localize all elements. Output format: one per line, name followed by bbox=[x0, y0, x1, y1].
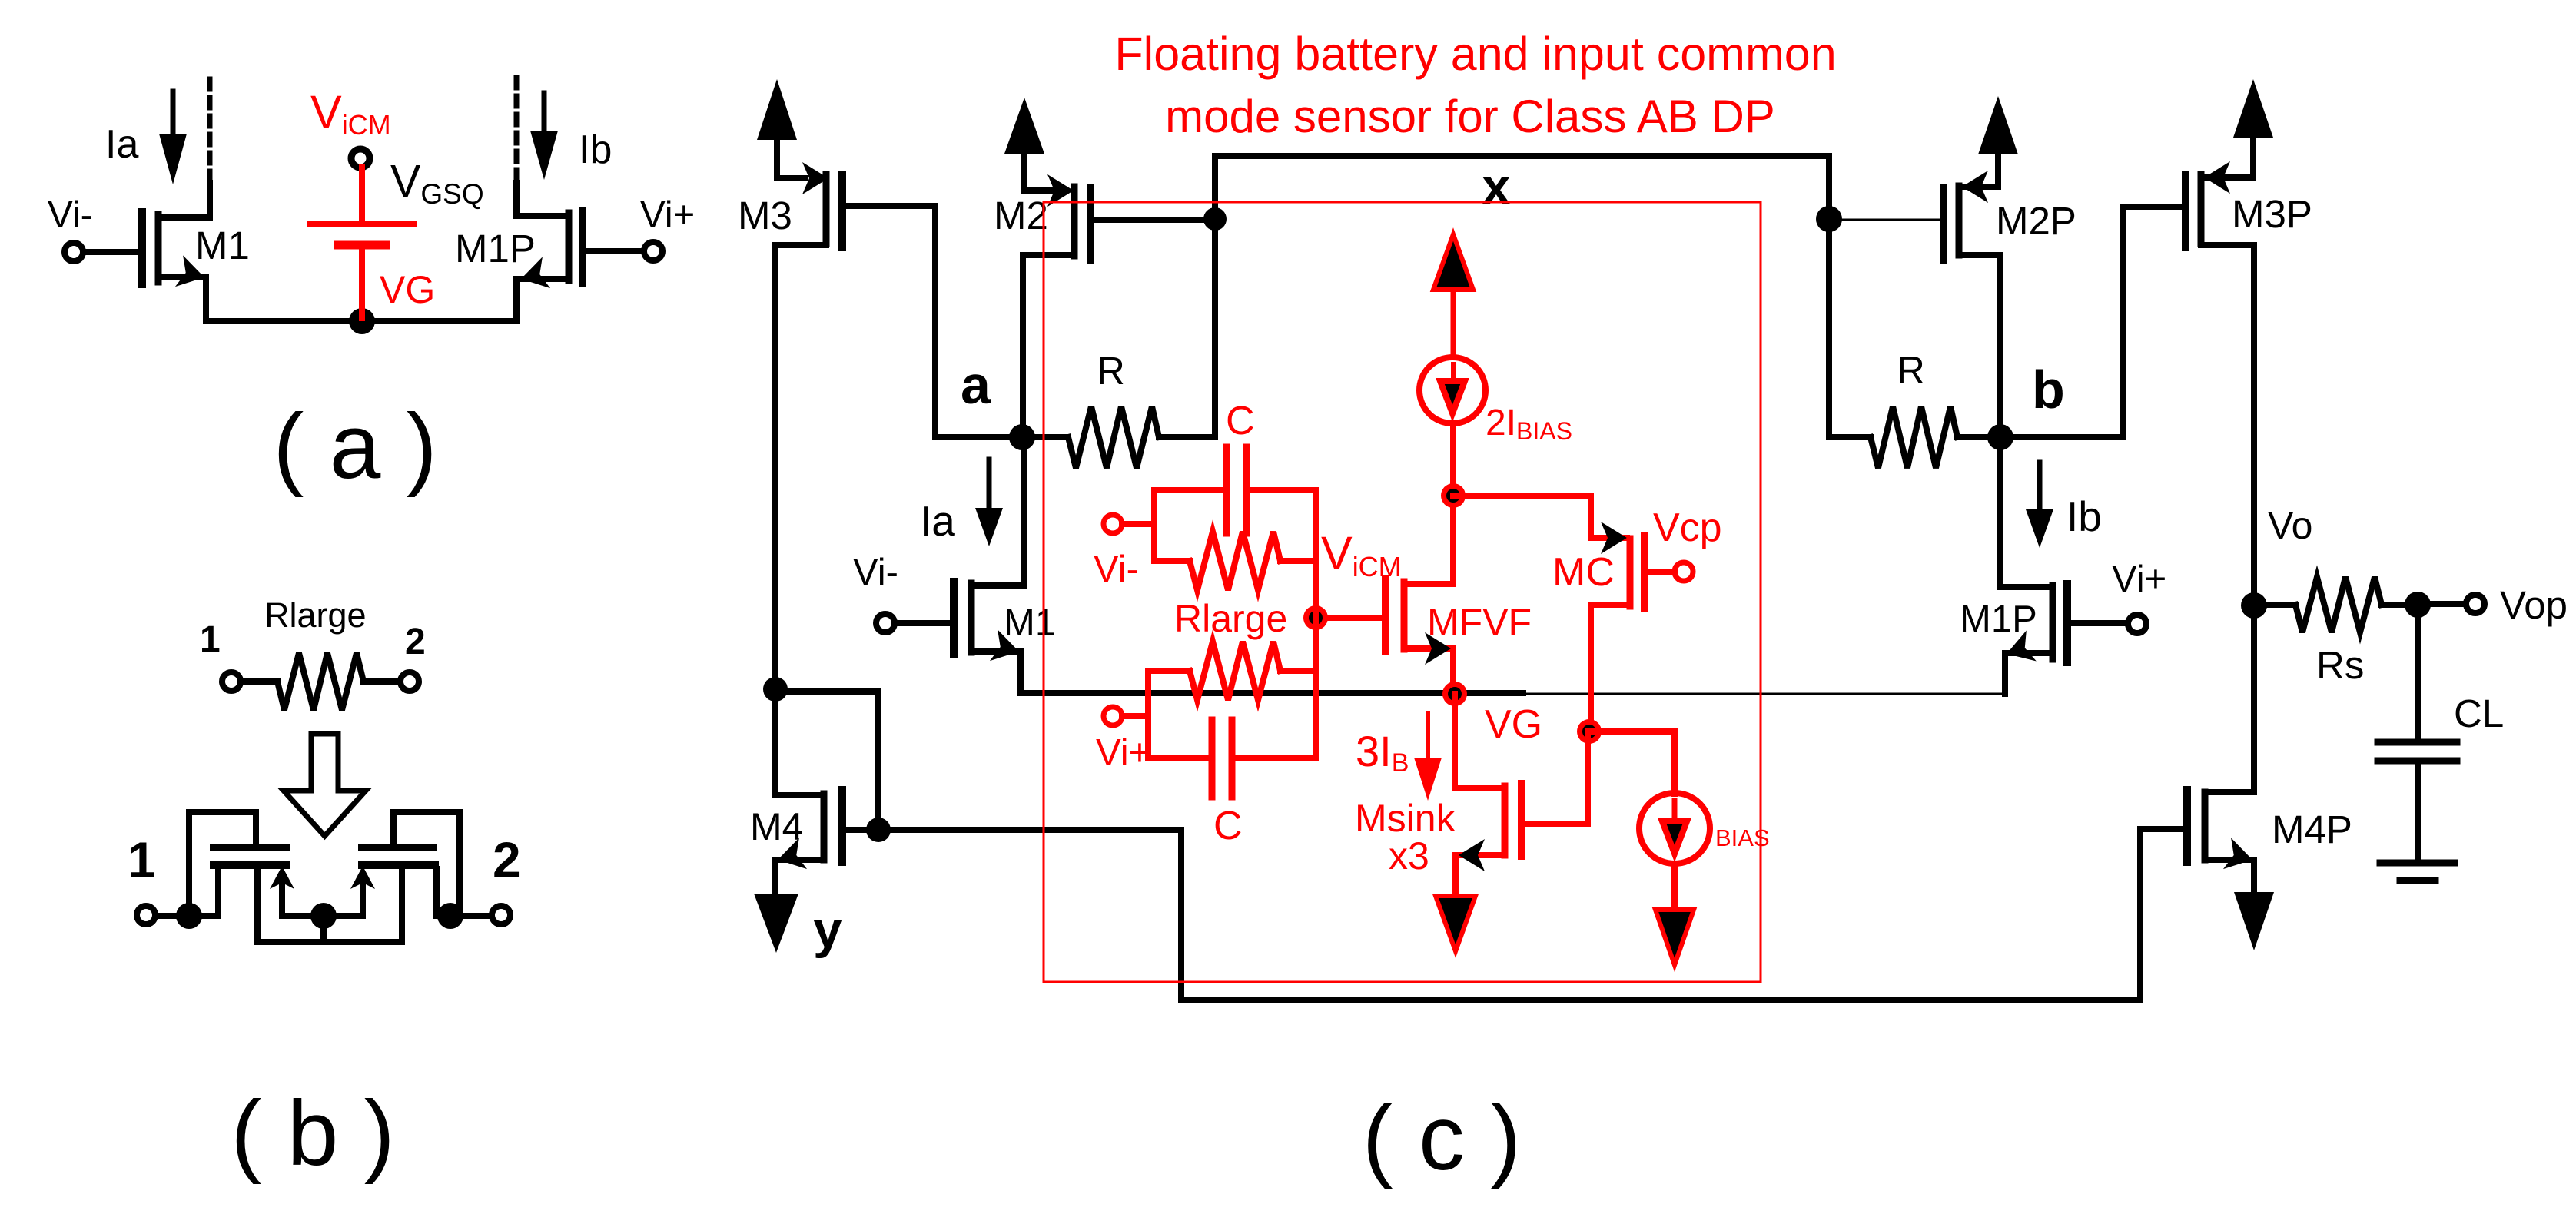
wire VG thick bbox=[1021, 690, 1523, 696]
wire drain dashed M1 (fig a) bbox=[207, 77, 213, 181]
terminal Vi- (fig a) bbox=[65, 243, 142, 261]
capacitor C lower bbox=[1148, 720, 1316, 797]
transistor MC bbox=[1591, 522, 1675, 731]
current arrow Ib (fig a) bbox=[530, 93, 558, 180]
current source IBIAS bbox=[1639, 793, 1710, 911]
wire upper RC right bbox=[1313, 490, 1319, 758]
svg-text:Vo: Vo bbox=[2268, 504, 2312, 547]
svg-text:( b ): ( b ) bbox=[231, 1082, 394, 1185]
terminal Vi- M1 bbox=[876, 614, 954, 632]
svg-text:M3: M3 bbox=[738, 194, 792, 237]
svg-text:M1: M1 bbox=[195, 224, 250, 267]
terminal ViCM (fig a) bbox=[351, 149, 370, 168]
node dot Vo bbox=[2241, 592, 2267, 619]
wire 2IBIAS to MFVF drain bbox=[1450, 426, 1456, 584]
svg-text:Rs: Rs bbox=[2316, 643, 2364, 687]
ground arrow node y bbox=[754, 894, 798, 953]
capacitor CL bbox=[2378, 605, 2457, 863]
resistor R left bbox=[1034, 406, 1215, 468]
svg-text:M1P: M1P bbox=[1960, 599, 2037, 640]
svg-text:1: 1 bbox=[200, 619, 221, 660]
node dot 2 (fig b) bbox=[437, 903, 463, 929]
svg-text:Vop: Vop bbox=[2500, 583, 2568, 627]
ground arrow M4P bbox=[2234, 892, 2274, 950]
terminal Vi- red bbox=[1104, 515, 1154, 533]
node dot VG bbox=[1442, 682, 1467, 706]
svg-text:MFVF: MFVF bbox=[1427, 601, 1532, 644]
svg-text:Vi+: Vi+ bbox=[640, 194, 695, 236]
transistor M1P bbox=[2000, 437, 2067, 694]
transistor Msink bbox=[1455, 694, 1522, 897]
node dot Vop bbox=[2405, 592, 2431, 618]
svg-text:M4: M4 bbox=[750, 805, 803, 848]
current arrow 3IB bbox=[1414, 713, 1442, 801]
svg-text:BIAS: BIAS bbox=[1715, 824, 1770, 851]
svg-text:mode sensor for Class AB DP: mode sensor for Class AB DP bbox=[1165, 91, 1775, 142]
transistor MFVF bbox=[1386, 579, 1453, 692]
ground CL bbox=[2380, 863, 2455, 881]
resistor Rlarge upper bbox=[1154, 532, 1316, 590]
svg-text:VG: VG bbox=[380, 268, 435, 311]
resistor Rs bbox=[2266, 577, 2405, 632]
battery VGSQ (fig a) bbox=[310, 168, 413, 318]
wire M4 gate to bottom rail bbox=[878, 829, 2187, 1000]
wire terminal 2 (fig b) bbox=[437, 906, 510, 924]
svg-text:Rlarge: Rlarge bbox=[1174, 597, 1287, 640]
svg-text:y: y bbox=[813, 901, 842, 959]
wire M2P gate thin bbox=[1829, 219, 1944, 221]
svg-text:Vi-: Vi- bbox=[853, 552, 898, 593]
svg-text:2: 2 bbox=[493, 831, 521, 888]
svg-text:2IBIAS: 2IBIAS bbox=[1486, 403, 1572, 445]
node dot M2P gate bbox=[1816, 206, 1842, 232]
wire M3 gate to node a bbox=[842, 206, 1010, 437]
wire M2 gate to node x bbox=[1090, 217, 1215, 223]
current arrow Ia (fig a) bbox=[159, 91, 187, 184]
terminal Vi+ (fig a) bbox=[583, 242, 662, 260]
svg-text:M2P: M2P bbox=[1996, 199, 2076, 243]
svg-text:a: a bbox=[961, 355, 991, 415]
svg-text:Vi+: Vi+ bbox=[2112, 559, 2166, 600]
wire lower RC left bbox=[1145, 671, 1151, 758]
node dot 1 (fig b) bbox=[176, 903, 202, 929]
wire M3 drain left vertical bbox=[772, 245, 778, 795]
ground arrow IBIAS bbox=[1655, 910, 1694, 965]
transistor M1P (fig a) bbox=[516, 183, 583, 321]
svg-text:x: x bbox=[1482, 158, 1511, 216]
svg-text:M3P: M3P bbox=[2232, 192, 2312, 236]
resistor R right bbox=[1829, 406, 2000, 468]
wire node to MC top bbox=[1453, 496, 1627, 538]
svg-text:( c ): ( c ) bbox=[1363, 1086, 1522, 1189]
transistor left (fig b) bbox=[189, 812, 294, 942]
svg-text:C: C bbox=[1226, 399, 1255, 443]
svg-text:Ia: Ia bbox=[920, 497, 955, 545]
capacitor C upper bbox=[1154, 447, 1316, 533]
transistor M2P bbox=[1944, 156, 2000, 437]
equivalence arrow (fig b) bbox=[284, 734, 366, 836]
node dot ViCM bbox=[1303, 605, 1328, 630]
svg-text:x3: x3 bbox=[1389, 834, 1429, 877]
transistor right (fig b) bbox=[350, 812, 460, 942]
wire node to Msink gate bbox=[1522, 731, 1588, 824]
transistor M1 (fig a) bbox=[142, 183, 210, 321]
wire node b to M3P gate bbox=[2000, 207, 2186, 437]
node dot MFVF drain bbox=[1441, 483, 1466, 508]
svg-text:MC: MC bbox=[1552, 550, 1615, 595]
red box input common mode sensor bbox=[1044, 202, 1761, 982]
transistor M4 bbox=[774, 790, 878, 895]
svg-text:Ia: Ia bbox=[105, 122, 138, 167]
current arrow Ib bbox=[2026, 463, 2053, 548]
svg-text:C: C bbox=[1213, 804, 1243, 848]
svg-text:Ib: Ib bbox=[579, 128, 612, 172]
terminal Vcp bbox=[1675, 562, 1693, 581]
node dot M4 gate bbox=[866, 818, 891, 842]
power arrow red 2IBIAS bbox=[1433, 234, 1473, 357]
power arrow VDD M3 bbox=[757, 79, 797, 176]
svg-text:Vi+: Vi+ bbox=[1096, 732, 1150, 774]
power arrow VDD M2 bbox=[1004, 98, 1044, 188]
node VG junction dot (fig a) bbox=[349, 308, 375, 334]
transistor M3P bbox=[2186, 138, 2254, 247]
svg-text:M4P: M4P bbox=[2272, 808, 2352, 851]
node dot M2 gate bbox=[1203, 207, 1227, 231]
resistor Rlarge (fig b) bbox=[222, 653, 419, 710]
wire bulk bottom (fig b) bbox=[257, 939, 402, 945]
svg-text:( a ): ( a ) bbox=[273, 395, 437, 498]
svg-text:R: R bbox=[1897, 348, 1925, 392]
wire node to IBIAS bbox=[1589, 731, 1675, 794]
wire drain dashed M1P (fig a) bbox=[514, 72, 520, 180]
terminal Vi+ red bbox=[1104, 707, 1148, 725]
wire node y branch bbox=[775, 692, 878, 830]
transistor M3 bbox=[775, 162, 842, 247]
power arrow VDD M3P bbox=[2233, 79, 2273, 138]
svg-text:b: b bbox=[2032, 360, 2065, 420]
current arrow Ia bbox=[975, 459, 1003, 546]
wire center node (fig b) bbox=[282, 916, 363, 942]
svg-text:Rlarge: Rlarge bbox=[264, 595, 367, 635]
transistor M1 bbox=[954, 437, 1024, 693]
svg-text:ViCM: ViCM bbox=[1321, 527, 1402, 582]
svg-text:M1: M1 bbox=[1004, 602, 1056, 644]
wire node x rail bbox=[1215, 156, 1829, 437]
svg-text:Vcp: Vcp bbox=[1653, 506, 1722, 550]
resistor Rlarge lower bbox=[1148, 642, 1316, 700]
svg-text:CL: CL bbox=[2454, 692, 2504, 735]
wire upper RC left bbox=[1151, 490, 1157, 561]
svg-text:ViCM: ViCM bbox=[310, 86, 391, 141]
wire Vo vertical bbox=[2251, 245, 2257, 792]
node a dot bbox=[1009, 424, 1035, 450]
terminal Vop bbox=[2430, 595, 2485, 613]
svg-text:VGSQ: VGSQ bbox=[390, 156, 484, 210]
wire ViCM to MFVF gate bbox=[1316, 615, 1386, 621]
node b dot bbox=[1987, 424, 2013, 450]
transistor M4P bbox=[2187, 790, 2256, 897]
node dot center (fig b) bbox=[310, 903, 337, 929]
transistor M2 bbox=[1023, 174, 1090, 437]
svg-text:Vi-: Vi- bbox=[1094, 549, 1139, 590]
wire terminal 1 (fig b) bbox=[137, 906, 218, 924]
svg-text:2: 2 bbox=[405, 622, 426, 662]
svg-text:Ib: Ib bbox=[2066, 493, 2102, 540]
svg-text:Vi-: Vi- bbox=[48, 194, 93, 236]
svg-text:R: R bbox=[1097, 349, 1125, 393]
ground arrow Msink bbox=[1436, 896, 1476, 951]
power arrow VDD M2P bbox=[1978, 96, 2018, 154]
svg-text:3IB: 3IB bbox=[1356, 727, 1409, 778]
svg-text:VG: VG bbox=[1485, 702, 1542, 747]
terminal Vi+ M1P bbox=[2067, 615, 2146, 633]
node dot MC source bbox=[1577, 719, 1602, 744]
svg-text:Msink: Msink bbox=[1355, 797, 1456, 840]
wire VG thin to M1P bbox=[1523, 693, 2007, 695]
svg-text:M1P: M1P bbox=[455, 227, 536, 270]
svg-text:Floating battery and input com: Floating battery and input common bbox=[1114, 28, 1836, 80]
svg-text:M2: M2 bbox=[994, 194, 1048, 237]
node dot M3 drain bbox=[763, 677, 788, 702]
current source 2IBIAS bbox=[1419, 357, 1486, 423]
svg-text:1: 1 bbox=[128, 831, 156, 888]
wire source rail (fig a) bbox=[206, 318, 516, 324]
